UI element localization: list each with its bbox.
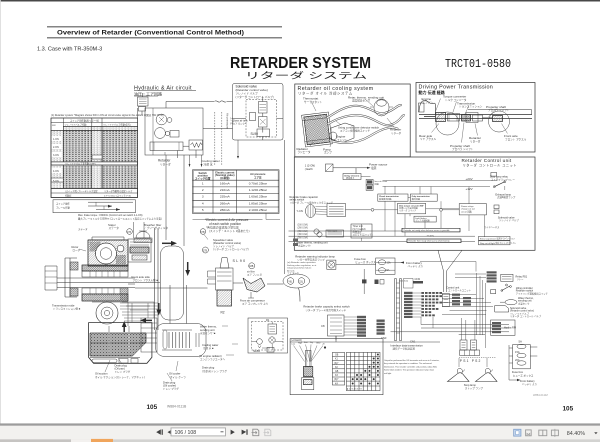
svg-text:W884-0111B: W884-0111B: [167, 405, 187, 409]
svg-text:リターダ: リターダ: [391, 131, 402, 135]
+24V +12V buses: [361, 177, 497, 187]
svg-text:リターダ: リターダ: [470, 139, 481, 143]
left yoke / flange: [65, 258, 77, 297]
svg-text:sending unit: sending unit: [518, 300, 532, 303]
oil pan: [89, 323, 152, 364]
bearings below shaft: [82, 288, 128, 294]
svg-text:■ 1 2 3 4 5 6 7 8: ■ 1 2 3 4 5 6 7 8: [347, 387, 362, 390]
svg-text:(1W 0.9A): (1W 0.9A): [298, 224, 309, 227]
nav prev: [168, 430, 172, 435]
wires: [362, 186, 470, 241]
radiator: [302, 112, 333, 147]
svg-text:冷却 水: 冷却 水: [204, 163, 213, 167]
connecting pipes: [166, 102, 214, 159]
bottom two label rows: [51, 189, 137, 198]
svg-text:Y6L: Y6L: [288, 280, 293, 283]
pipes from hydraulic circuit down to transmission: [166, 155, 184, 246]
svg-text:1.3. Case with TR-350M-3: 1.3. Case with TR-350M-3: [37, 47, 102, 53]
svg-text:(リターダ コントロール バルブ): (リターダ コントロール バルブ): [236, 95, 274, 99]
scan top border: [0, 0, 600, 2]
svg-text:CN3: CN3: [415, 277, 421, 281]
svg-text:フロント アクスル: フロント アクスル: [505, 137, 527, 141]
svg-text:エア圧: エア圧: [254, 175, 262, 179]
svg-text:エンジン: エンジン: [423, 100, 434, 104]
svg-text:106 / 108: 106 / 108: [175, 430, 197, 436]
svg-text:オイル サクション(ストレーナ、マグネット): オイル サクション(ストレーナ、マグネット): [95, 375, 145, 379]
svg-text:R2: R2: [221, 311, 225, 315]
svg-text:SL80: SL80: [253, 349, 260, 353]
svg-text:Power relays: Power relays: [461, 205, 475, 208]
wavy break: [215, 101, 227, 102]
svg-text:(公称値): (公称値): [220, 176, 230, 180]
right pipe loop: [161, 246, 184, 320]
nav last: [242, 430, 247, 435]
svg-text:(Retarder control valve): (Retarder control valve): [510, 310, 534, 313]
prev view icon: [252, 429, 259, 436]
lower rotor: [96, 302, 118, 324]
svg-text:GB: GB: [335, 371, 339, 373]
svg-text:0.70±0.25bar: 0.70±0.25bar: [249, 181, 267, 185]
right column: [487, 271, 497, 282]
vertical wire from solenoid box bottom: [237, 140, 239, 156]
filter box above circuit: [138, 97, 149, 106]
front wheel: [489, 111, 510, 132]
driveline: [436, 113, 446, 122]
group separator rows: [51, 162, 137, 165]
svg-text:280mA: 280mA: [220, 208, 231, 212]
connector CN3 vertical strips: [395, 279, 397, 341]
svg-text:1 (2-ON): 1 (2-ON): [305, 164, 316, 168]
svg-text:charge cut out: charge cut out: [461, 208, 475, 211]
svg-text:R1: R1: [266, 318, 270, 322]
svg-text:ストップ ランプ: ストップ ランプ: [465, 386, 484, 390]
svg-text:油圧・エア回路: 油圧・エア回路: [134, 90, 162, 96]
svg-text:(at) Retarder under operation:: (at) Retarder under operation:: [287, 261, 316, 264]
svg-text:(5W 0.9A): (5W 0.9A): [298, 236, 309, 239]
small stubs at left border: [289, 231, 297, 242]
svg-text:ラジエータ: ラジエータ: [298, 150, 311, 154]
timer signal box: [326, 230, 344, 237]
svg-text:(4W 0.9A): (4W 0.9A): [298, 233, 309, 236]
svg-text:ストップランプリレー: ストップランプリレー: [491, 177, 515, 181]
svg-text:Air tank: Air tank: [287, 269, 295, 272]
svg-text:105: 105: [147, 404, 158, 411]
solenoid valve SL90 (retarder control valve): [233, 84, 284, 141]
svg-text:W884-0110Z: W884-0110Z: [533, 393, 548, 397]
illustration text block: [287, 261, 317, 275]
svg-text:5A: 5A: [387, 269, 390, 272]
wire junction node: [362, 279, 367, 283]
svg-text:High: High: [298, 342, 302, 344]
svg-text:4-ON: 4-ON: [53, 170, 59, 173]
light flasher: [414, 216, 436, 222]
svg-text:( Earth: ( Earth: [305, 167, 314, 171]
svg-text:1.85±0.25bar: 1.85±0.25bar: [249, 201, 267, 205]
engine block outline: [331, 123, 354, 143]
svg-text:Air pressure: Air pressure: [250, 172, 266, 176]
svg-text:(1) Retarder system *Diagram: (1) Retarder system *Diagram shows SW in…: [51, 113, 164, 117]
funnel wires from control unit down: [438, 250, 462, 292]
svg-text:Overview of Retarder (Conventi: Overview of Retarder (Conventional Contr…: [57, 30, 244, 37]
svg-text:(S)Y: (S)Y: [334, 379, 339, 381]
svg-text:SL90: SL90: [233, 259, 247, 263]
svg-text:水温センサ↑■: 水温センサ↑■: [200, 331, 216, 335]
bottom strip: [0, 439, 600, 442]
svg-text:エアコン使用検出スイッチ: エアコン使用検出スイッチ: [340, 129, 371, 133]
next view icon (disabled): [264, 429, 271, 436]
svg-text:5-ON: 5-ON: [53, 180, 59, 183]
svg-text:Solenoid valve: Solenoid valve: [510, 307, 527, 310]
svg-text:トランスミッション側 ■: トランスミッション側 ■: [53, 307, 81, 311]
svg-text:1-ON: 1-ON: [53, 138, 59, 141]
page input: [171, 428, 226, 436]
delay element: [343, 174, 361, 180]
svg-text:Retarder not ready when balanc: Retarder not ready when balance source i…: [404, 229, 451, 232]
feed pipes from above: [134, 222, 145, 238]
svg-text:ソレノイド バルブ: ソレノイド バルブ: [499, 218, 519, 222]
svg-text:90 (A/T): 90 (A/T): [427, 234, 435, 237]
svg-text:Control unit: Control unit: [446, 285, 460, 289]
breather filter dome: [136, 232, 150, 239]
svg-text:SL90: SL90: [251, 132, 259, 136]
svg-text:Batt: Batt: [304, 341, 308, 344]
svg-text:エンジンラジエータへ: エンジンラジエータへ: [200, 357, 225, 361]
svg-text:84.40%: 84.40%: [567, 431, 585, 437]
svg-text:Only transmission: Only transmission: [412, 195, 431, 198]
stator block right: [128, 239, 151, 262]
svg-text:通信データ転送装置: 通信データ転送装置: [393, 347, 416, 351]
timing box below: [53, 200, 135, 213]
svg-text:105: 105: [563, 406, 574, 413]
svg-text:1: 1: [202, 181, 204, 185]
timer unit box: [351, 224, 372, 238]
svg-text:temperature/when failure: temperature/when failure: [287, 267, 312, 270]
valve body channels: [141, 318, 157, 352]
svg-text:／ブリーザ フィルタ: ／ブリーザ フィルタ: [144, 226, 168, 230]
svg-text:Low: Low: [291, 343, 295, 345]
chassis rails: [419, 115, 532, 119]
middle: check transmission boxes: [378, 194, 408, 201]
svg-text:4: 4: [202, 201, 204, 205]
hoses: [327, 105, 405, 143]
svg-text:5A: 5A: [519, 339, 523, 343]
svg-text:サーモスタット: サーモスタット: [304, 100, 323, 104]
svg-text:2-ON: 2-ON: [53, 146, 59, 149]
svg-text:Relay R51: Relay R51: [516, 275, 528, 278]
solenoid valve R2: [220, 258, 229, 269]
svg-text:210mA: 210mA: [220, 188, 231, 192]
svg-text:点滅&確認ランプ: 点滅&確認ランプ: [497, 195, 516, 199]
svg-text:Light flasher: Light flasher: [415, 217, 427, 220]
svg-text:(スイッチ・ユニット 1個あたり): (スイッチ・ユニット 1個あたり): [209, 229, 250, 233]
svg-text:水温センサ↑: 水温センサ↑: [298, 244, 311, 248]
bold arrows: [162, 242, 171, 244]
svg-text:17B: 17B: [127, 232, 132, 234]
wire from solenoid area down to air tank: [284, 140, 286, 274]
svg-text:Y-CN: Y-CN: [297, 209, 303, 213]
svg-text:冷却 水 ■: 冷却 水 ■: [203, 346, 214, 350]
svg-text:Air pressure: Air pressure: [226, 113, 230, 129]
matrix: [346, 352, 380, 390]
svg-text:(3W 0.9A): (3W 0.9A): [298, 230, 309, 233]
nav first-page: [156, 429, 163, 434]
pressure switches PS1 PS2: [459, 334, 485, 336]
svg-text:18B: 18B: [249, 265, 254, 268]
svg-text:3: 3: [202, 195, 204, 199]
svg-text:(Retarder control valve): (Retarder control valve): [236, 88, 268, 92]
wire fan with label stacks: [344, 317, 357, 335]
svg-text:スイッチ位置: スイッチ位置: [195, 176, 211, 180]
small box right of pump2: [170, 131, 179, 138]
retarder box: [150, 142, 183, 151]
svg-text:リターダ: リターダ: [160, 162, 171, 166]
svg-text:TRCT01-0580: TRCT01-0580: [445, 57, 511, 71]
svg-text:リターダ オイル 冷却システム: リターダ オイル 冷却システム: [298, 90, 353, 95]
svg-text:Check transmission: Check transmission: [379, 195, 399, 198]
dense table: [51, 118, 138, 198]
nav next: [231, 430, 235, 435]
wires right of matrix: [442, 295, 493, 315]
svg-text:(冷却水)ドレン プラグ: (冷却水)ドレン プラグ: [202, 369, 227, 373]
svg-text:温度検出センサ: 温度検出センサ: [352, 99, 371, 103]
svg-text:(2W 0.9A): (2W 0.9A): [298, 227, 309, 230]
svg-text:リヤ アクスル: リヤ アクスル: [420, 137, 436, 141]
retarder unit: [374, 99, 389, 116]
horiba box: [491, 320, 515, 335]
svg-text:flashing when regulation, or a: flashing when regulation, or at: [287, 264, 317, 267]
svg-text:エンジン: エンジン: [337, 138, 348, 142]
svg-text:Power source: Power source: [369, 162, 388, 166]
svg-text:RETARDER SYSTEM: RETARDER SYSTEM: [230, 55, 371, 72]
right vertical pipes: [155, 228, 159, 330]
svg-text:(リターダ コントロール バルブ): (リターダ コントロール バルブ): [213, 247, 249, 251]
svg-text:Retarder switch: Retarder switch: [516, 290, 534, 293]
svg-text:1.60±0.25bar: 1.60±0.25bar: [249, 195, 267, 199]
svg-text:プロペラ シャフト: プロペラ シャフト: [452, 147, 474, 151]
svg-text:17B: 17B: [203, 249, 208, 252]
engine: [419, 100, 436, 114]
current / air-pressure table: [193, 170, 281, 233]
svg-text:17B: 17B: [200, 232, 205, 234]
svg-text:2: 2: [202, 188, 204, 192]
svg-text:PS1 PS2: PS1 PS2: [460, 359, 482, 363]
line cut circuit: [366, 179, 373, 184]
svg-text:+24V: +24V: [466, 177, 473, 181]
svg-text:C8: C8: [321, 324, 325, 328]
svg-text:ドレン プラグ: ドレン プラグ: [163, 386, 179, 390]
svg-text:Radiator: Radiator: [297, 147, 308, 151]
rows of tiny spec text: [298, 224, 309, 240]
svg-text:Output be performed the ILS tr: Output be performed the ILS transmits an…: [384, 359, 440, 362]
svg-text:3-ON: 3-ON: [53, 154, 59, 157]
svg-text:Retarder Control unit: Retarder Control unit: [462, 158, 512, 163]
svg-text:260mA: 260mA: [220, 201, 231, 205]
long buses: [391, 325, 510, 332]
oil cooler: [156, 324, 207, 357]
air filter 18B: [249, 263, 255, 269]
svg-text:CN1: CN1: [410, 340, 416, 344]
svg-text:CN3: CN3: [381, 336, 387, 340]
plug: [305, 351, 311, 367]
svg-text:Sig: Sig: [310, 342, 313, 344]
svg-text:GND: GND: [316, 342, 321, 344]
fan labels: [291, 341, 325, 346]
svg-text:リターダ コントロール ユニット: リターダ コントロール ユニット: [463, 162, 517, 167]
right view icons: [514, 429, 521, 436]
long line to R2: [128, 283, 208, 289]
svg-text:2.10±0.25bar: 2.10±0.25bar: [249, 208, 267, 212]
svg-text:ステータ: ステータ: [78, 227, 88, 231]
bearing bands above shaft: [82, 265, 128, 271]
left label stacks beside CN: [404, 292, 413, 318]
svg-text:ロータ: ロータ: [73, 248, 81, 252]
idea torque box: [398, 203, 426, 214]
svg-text:1.12±0.25bar: 1.12±0.25bar: [249, 188, 267, 192]
solenoid valve SL80 inset (valve R1): [248, 318, 288, 353]
control unit connector matrix: [421, 292, 442, 316]
vertical wires right area: [476, 273, 485, 348]
accumulator (spring): [189, 140, 203, 150]
svg-text:15A: 15A: [387, 261, 392, 264]
svg-text:ドレン プラグ: ドレン プラグ: [115, 369, 131, 373]
rotor housing top: [88, 240, 128, 266]
pump P2: [155, 128, 166, 139]
svg-text:160mA: 160mA: [220, 181, 231, 185]
window left edge: [0, 0, 2, 424]
svg-text:リターダ警告表示ランプ: リターダ警告表示ランプ: [297, 257, 325, 261]
svg-text:Horiba RPI: Horiba RPI: [504, 327, 517, 330]
svg-text:ヒューズ ボックス: ヒューズ ボックス: [513, 373, 534, 377]
svg-text:red light.: red light.: [384, 372, 392, 375]
svg-text:Retarder: Retarder: [158, 159, 171, 163]
svg-text:ヒューズ ボックス: ヒューズ ボックス: [355, 260, 376, 264]
bottom buses with label boxes: [296, 231, 475, 242]
svg-text:they extends for operation in: they extends for operation in condition.…: [384, 362, 432, 365]
svg-text:動力 伝達 経路: 動力 伝達 経路: [419, 89, 445, 95]
svg-text:オイル クーラ: オイル クーラ: [170, 375, 186, 379]
svg-text:最大ブレーキトルク 1500Nm (コントロールユニット設定: 最大ブレーキトルク 1500Nm (コントロールユニット設定スイッチにより可変): [78, 217, 162, 221]
svg-text:235mA: 235mA: [220, 195, 231, 199]
svg-text:Some block evident. The operat: Some block evident. The operation indica…: [384, 369, 435, 372]
svg-text:ステータ: ステータ: [109, 226, 120, 230]
rear wheel: [436, 112, 459, 135]
svg-text:トランスミッション: トランスミッション: [459, 105, 483, 109]
svg-text:バッテリ より: バッテリ より: [522, 382, 537, 386]
svg-text:リレー: リレー: [517, 278, 525, 281]
svg-text:ポンプ: ポンプ: [324, 151, 332, 155]
shaft: [57, 278, 135, 288]
power relay box: [459, 204, 486, 215]
svg-text:(S)Y: (S)Y: [334, 363, 339, 365]
svg-text:23L: 23L: [299, 280, 304, 283]
svg-text:電源: 電源: [371, 166, 377, 170]
header rule top: [47, 25, 282, 28]
vertical dashed air lines: [215, 112, 222, 165]
lamps: [448, 373, 470, 382]
circuit outer box: [145, 108, 203, 155]
svg-text:リターダ システム: リターダ システム: [245, 70, 367, 81]
svg-text:Idea torque set point SW: Idea torque set point SW: [399, 204, 423, 207]
svg-text:リターダ ブレーキ能力切換スイッチ: リターダ ブレーキ能力切換スイッチ: [305, 308, 346, 312]
svg-text:プロペラ シャフト: プロペラ シャフト: [488, 108, 510, 112]
pump P1: [156, 114, 167, 125]
air tank oval: [283, 274, 310, 288]
left column table: [332, 352, 344, 385]
header rule bottom: [47, 36, 282, 39]
left labels: [52, 136, 62, 141]
svg-text:エア コンプレッサ より: エア コンプレッサ より: [242, 302, 268, 306]
svg-text:illumination. This retarder co: illumination. This retarder controller a…: [384, 365, 437, 368]
svg-text:エア フィルタ: エア フィルタ: [247, 272, 263, 276]
svg-text:Retarder from ready when just: Retarder from ready when just a whole ba…: [409, 240, 450, 243]
svg-text:GB: GB: [335, 355, 339, 357]
svg-text:5: 5: [202, 208, 204, 212]
svg-text:バッテリ より: バッテリ より: [408, 264, 424, 268]
